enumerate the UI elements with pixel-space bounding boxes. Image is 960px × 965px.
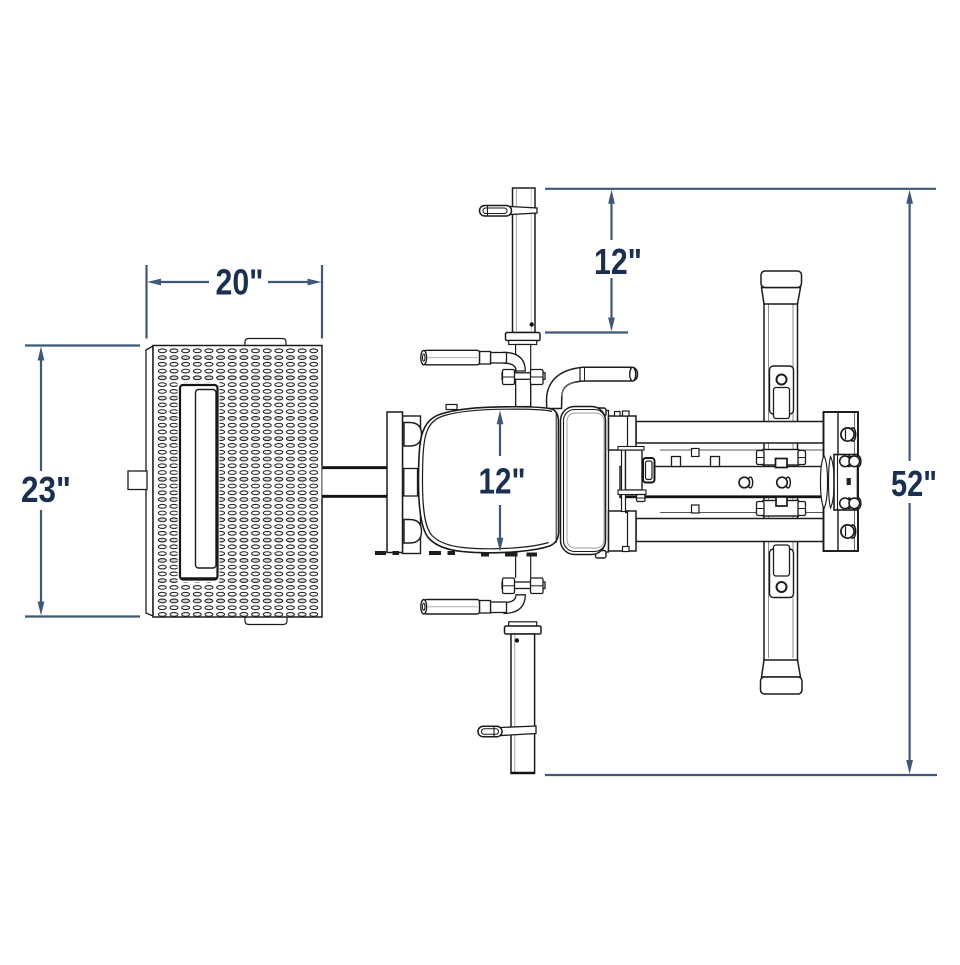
central beam <box>620 467 824 498</box>
bracket front plate <box>387 412 403 553</box>
dim 12in top line <box>610 201 612 240</box>
backrest frame plate <box>603 411 609 553</box>
dim 20in ext lines <box>145 265 147 339</box>
foot plate side face <box>146 346 153 616</box>
dim 20in line <box>158 281 209 283</box>
top-left handle <box>504 352 525 371</box>
connecting rod <box>322 467 388 498</box>
bar clamp upper <box>763 450 799 466</box>
curved handle right <box>547 367 638 408</box>
rail end nuts <box>692 449 700 457</box>
dim 52in line <box>908 201 910 461</box>
bottom thin tube <box>515 556 517 578</box>
svg-text:12": 12" <box>479 461 526 502</box>
beam bolts <box>748 477 753 488</box>
arrows 23in <box>38 347 45 361</box>
arrows 12in seat <box>497 410 504 424</box>
slot cover <box>178 383 220 583</box>
svg-text:52": 52" <box>891 463 937 504</box>
bar bottom trapezoid <box>762 660 801 677</box>
bar bottom cap <box>761 677 803 694</box>
bottom post pop-pin <box>501 726 536 736</box>
right crescent <box>829 457 835 509</box>
top post tube <box>513 188 536 333</box>
bottom collar <box>509 622 537 626</box>
svg-text:23": 23" <box>21 469 71 510</box>
bracket feet <box>375 551 455 555</box>
adjuster block <box>626 450 643 490</box>
bar bottom bracket <box>770 549 794 598</box>
foot plate bottom tab <box>245 617 287 625</box>
dim 23in line <box>40 357 42 471</box>
bracket bottom cylinder tab <box>404 520 422 544</box>
seat top-left mark <box>446 405 457 410</box>
bracket top cylinder tab <box>404 423 422 447</box>
arrows 52in <box>906 190 913 204</box>
seat pan <box>419 407 559 553</box>
beam tabs <box>672 457 681 467</box>
backrest bottom block <box>609 511 637 551</box>
perforation holes <box>158 349 317 616</box>
bottom rail <box>636 519 824 542</box>
foot plate face <box>153 346 322 618</box>
bar top cap <box>761 271 802 288</box>
top post collar <box>506 333 541 341</box>
plate bolts <box>841 428 856 441</box>
seat seam <box>423 409 553 549</box>
end plate middle block <box>834 455 858 511</box>
lower thin plate <box>618 490 646 495</box>
bar top trapezoid <box>762 288 801 305</box>
dim 23in ext lines <box>25 344 140 346</box>
end plate <box>824 412 859 551</box>
bar clamp lower <box>763 501 799 517</box>
thin tube to seat <box>515 385 517 408</box>
buckle clamp <box>643 458 655 483</box>
dim 52in ext lines <box>545 188 936 190</box>
backrest top block <box>609 416 637 450</box>
tube end crescent <box>820 456 827 509</box>
bracket back plate <box>403 416 421 554</box>
svg-text:12": 12" <box>594 241 642 282</box>
slot inner plate <box>196 390 217 569</box>
top post pop-pin <box>511 207 538 215</box>
top rail <box>636 422 824 444</box>
backrest pad <box>561 407 606 555</box>
arrows 12in top <box>608 190 615 204</box>
bottom bolt clamp <box>502 582 545 589</box>
lower nut <box>637 495 646 502</box>
dim 12in top ext <box>545 331 628 333</box>
right cross bar shaft <box>764 300 798 662</box>
bottom-left handle <box>504 595 525 614</box>
bottom post tube <box>511 634 535 774</box>
frame bottom bolt <box>596 551 607 559</box>
top thin tube <box>516 345 531 407</box>
adjuster strip <box>622 450 626 512</box>
top bolt clamp <box>502 373 545 380</box>
seat frame feet right <box>481 553 537 557</box>
dim 12in seat line <box>499 423 501 456</box>
arrows 20in <box>147 279 161 286</box>
bracket middle notch <box>404 469 418 497</box>
rail back edges <box>660 449 823 451</box>
left stub <box>128 471 147 490</box>
bar top bracket <box>770 366 794 414</box>
top thin plate <box>618 447 644 451</box>
frame top bolt <box>596 408 607 416</box>
foot plate top tab <box>245 339 286 347</box>
svg-text:20": 20" <box>216 262 264 303</box>
slot outer frame <box>180 385 218 580</box>
